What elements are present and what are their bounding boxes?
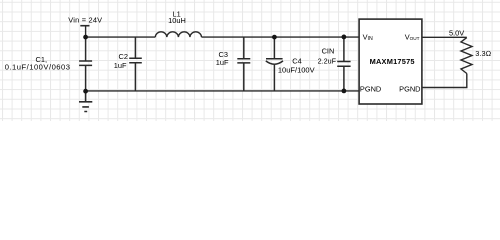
svg-text:C2: C2: [119, 52, 128, 61]
capacitor C4 polarized: [266, 37, 283, 91]
wire Vin terminal stem: [85, 26, 87, 37]
wire VOUT pin to resistor: [422, 36, 467, 38]
svg-text:5.0V: 5.0V: [449, 29, 464, 38]
svg-text:1uF: 1uF: [216, 58, 229, 67]
node junction CIN bottom: [342, 89, 347, 94]
node VIN input terminal bar: [80, 25, 89, 27]
svg-text:0.1uF/100V/0603: 0.1uF/100V/0603: [5, 62, 71, 71]
wire top rail left segment: [86, 36, 156, 38]
svg-text:MAXM17575: MAXM17575: [370, 57, 415, 66]
wire resistor bottom to PGND: [422, 74, 467, 88]
svg-text:C4: C4: [292, 57, 301, 66]
svg-text:10uF/100V: 10uF/100V: [278, 66, 315, 75]
capacitor C3: [237, 37, 250, 91]
node junction Vin/C1 top: [83, 35, 88, 40]
inductor L1: [155, 32, 201, 37]
wire bottom ground rail: [86, 90, 360, 92]
node junction C1 bottom: [83, 89, 88, 94]
ground symbol: [79, 91, 92, 112]
op-amp U1 MAXM17575 box: [359, 19, 422, 104]
svg-text:PGND: PGND: [360, 85, 381, 94]
capacitor C2: [129, 37, 142, 91]
capacitor C1: [79, 37, 92, 91]
svg-text:PGND: PGND: [399, 85, 420, 94]
capacitor CIN: [337, 37, 350, 91]
svg-text:Vin = 24V: Vin = 24V: [68, 16, 102, 25]
resistor R 3.3ohm: [461, 38, 472, 74]
svg-text:CIN: CIN: [322, 47, 335, 56]
node junction C4 top: [272, 35, 277, 40]
svg-text:10uH: 10uH: [168, 16, 186, 25]
wire top rail right segment: [202, 36, 360, 38]
svg-text:2.2uF: 2.2uF: [318, 57, 337, 66]
svg-text:3.3Ω: 3.3Ω: [475, 49, 491, 58]
node junction CIN top: [342, 35, 347, 40]
svg-text:1uF: 1uF: [114, 61, 127, 70]
